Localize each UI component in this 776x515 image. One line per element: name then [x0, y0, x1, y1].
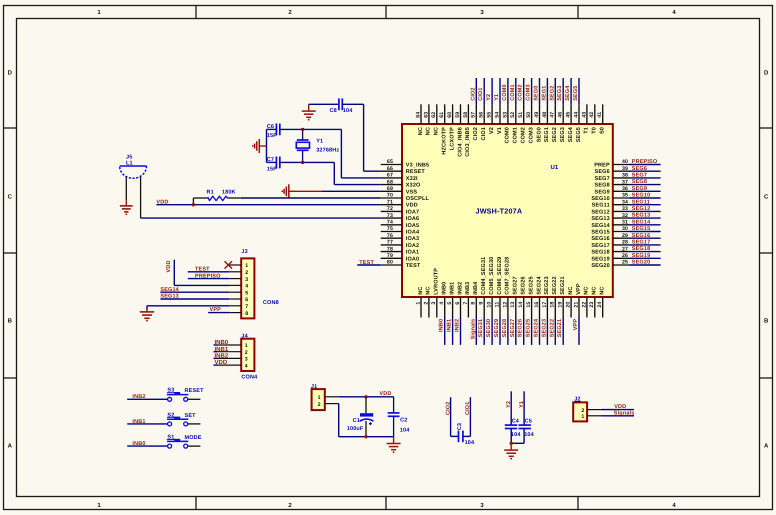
- U1 pin 38 SEG7: [613, 177, 630, 179]
- svg-text:12: 12: [502, 302, 508, 308]
- svg-text:104: 104: [511, 432, 521, 438]
- svg-text:SEG27: SEG27: [510, 319, 516, 337]
- svg-text:75: 75: [387, 226, 393, 232]
- svg-text:SEG6: SEG6: [632, 166, 647, 172]
- svg-text:SEG14: SEG14: [160, 287, 179, 293]
- svg-text:2: 2: [245, 350, 248, 356]
- svg-text:SEG23: SEG23: [541, 319, 547, 337]
- wire net SEG2: [554, 78, 556, 104]
- svg-text:SEG5: SEG5: [576, 127, 582, 142]
- svg-text:CIO4_INB6: CIO4_INB6: [457, 127, 463, 157]
- svg-text:JWSH-T207A: JWSH-T207A: [476, 206, 523, 215]
- wire TEST pin 80: [357, 264, 380, 266]
- svg-text:SEG22: SEG22: [549, 319, 555, 337]
- wire VSS to pin 69: [322, 190, 381, 192]
- J4 pin 3 net INB2: [218, 357, 242, 359]
- wire net SEG10: [630, 197, 661, 199]
- svg-text:28: 28: [622, 240, 628, 246]
- svg-text:C6: C6: [267, 124, 274, 130]
- svg-text:VPP: VPP: [210, 307, 222, 313]
- wire net TEST (J3 pin 2): [188, 271, 230, 273]
- svg-text:IOA4: IOA4: [406, 230, 420, 236]
- svg-text:19: 19: [558, 302, 564, 308]
- wire net SEG20: [630, 264, 661, 266]
- U1 pin 16 SEG24: [539, 297, 541, 318]
- junction VDD/R1: [192, 203, 195, 206]
- svg-text:73: 73: [387, 213, 393, 219]
- resistor R1 180K: [192, 198, 194, 205]
- svg-text:SEG1: SEG1: [544, 127, 550, 142]
- svg-text:CIO1: CIO1: [465, 402, 471, 415]
- wire bottom rail (J1): [339, 436, 394, 438]
- svg-text:SEG2: SEG2: [549, 86, 555, 101]
- svg-text:16: 16: [534, 302, 540, 308]
- svg-text:U1: U1: [551, 164, 559, 171]
- svg-text:6: 6: [245, 297, 248, 303]
- svg-text:SEG13: SEG13: [632, 213, 650, 219]
- U1 pin 3 LVROUTP: [436, 297, 438, 318]
- svg-text:RESET: RESET: [185, 388, 205, 394]
- wire net SEG31: [483, 318, 485, 345]
- svg-text:59: 59: [455, 112, 461, 118]
- wire net INB0 (S1): [127, 445, 167, 447]
- U1 pin 32 SEG13: [613, 217, 630, 219]
- svg-text:6: 6: [455, 302, 461, 305]
- U1 pin 76 IOA3: [381, 237, 402, 239]
- U1 pin 9 COM4_SEG31: [483, 297, 485, 318]
- U1 pin 53 COM0: [507, 104, 509, 124]
- svg-text:SEG9: SEG9: [595, 189, 610, 195]
- wire net INB2 (S3): [127, 398, 167, 400]
- U1 pin 35 SEG10: [613, 197, 630, 199]
- U1 pin 48 SEG1: [546, 104, 548, 124]
- svg-text:CON4: CON4: [241, 375, 258, 381]
- svg-text:B: B: [8, 318, 13, 325]
- svg-text:B: B: [764, 318, 769, 325]
- svg-text:SEG5: SEG5: [573, 86, 579, 101]
- svg-text:SEG25: SEG25: [528, 276, 534, 294]
- svg-text:68: 68: [387, 179, 393, 185]
- svg-text:4: 4: [439, 302, 445, 305]
- svg-text:65: 65: [387, 159, 393, 165]
- svg-text:7: 7: [463, 302, 469, 305]
- J2 pin 2 wire net VDD: [587, 409, 601, 411]
- svg-text:104: 104: [524, 432, 534, 438]
- U1 pin 46 SEG3: [562, 104, 564, 124]
- svg-text:44: 44: [573, 112, 579, 118]
- svg-text:SEG0: SEG0: [534, 86, 540, 101]
- svg-text:SEG3: SEG3: [557, 86, 563, 101]
- J1 pin 1 wire (VDD): [325, 396, 339, 398]
- wire net INB1: [452, 318, 454, 345]
- svg-text:INB1: INB1: [449, 282, 455, 295]
- svg-text:15P: 15P: [267, 133, 277, 139]
- svg-text:60: 60: [447, 112, 453, 118]
- svg-text:36: 36: [622, 186, 628, 192]
- svg-text:8: 8: [471, 302, 477, 305]
- wire C4/C5 to ground: [510, 429, 512, 444]
- connector J1 body: [312, 389, 325, 410]
- svg-text:PREP: PREP: [594, 163, 610, 169]
- U1 pin 5 INB1: [452, 297, 454, 318]
- svg-text:SEG16: SEG16: [632, 233, 650, 239]
- svg-text:SEG7: SEG7: [632, 173, 647, 179]
- wire net COM0: [507, 78, 509, 104]
- svg-text:46: 46: [558, 112, 564, 118]
- svg-text:C: C: [764, 194, 769, 201]
- svg-text:SEG12: SEG12: [591, 209, 609, 215]
- U1 pin 72 IOA7: [381, 210, 402, 212]
- wire net SEG14: [630, 224, 661, 226]
- svg-text:SEG19: SEG19: [591, 256, 609, 262]
- svg-text:SEG24: SEG24: [536, 276, 542, 295]
- svg-text:SEG20: SEG20: [632, 260, 650, 266]
- svg-text:63: 63: [423, 112, 429, 118]
- svg-text:SEG6: SEG6: [595, 169, 610, 175]
- J3 pin 5: [229, 291, 241, 293]
- svg-text:SEG16: SEG16: [591, 236, 609, 242]
- svg-text:Y2: Y2: [506, 401, 512, 408]
- U1 pin 33 SEG12: [613, 210, 630, 212]
- svg-text:INB1: INB1: [132, 419, 145, 425]
- svg-text:NC: NC: [426, 127, 432, 135]
- U1 pin 75 IOA4: [381, 231, 402, 233]
- U1 pin 70 OSCPLL: [381, 197, 402, 199]
- svg-text:IOA0: IOA0: [406, 256, 419, 262]
- svg-text:104: 104: [465, 440, 475, 446]
- svg-text:COM7_SEG28: COM7_SEG28: [505, 257, 511, 295]
- svg-text:X32I: X32I: [406, 176, 418, 182]
- capacitor C8: [338, 98, 340, 110]
- wire node B to X32O pin 68: [303, 161, 335, 163]
- U1 pin 23 NC: [594, 297, 596, 318]
- svg-text:22: 22: [581, 302, 587, 308]
- U1 pin 74 IOA5: [381, 224, 402, 226]
- svg-text:CIO2: CIO2: [470, 87, 476, 100]
- svg-text:29: 29: [622, 233, 628, 239]
- svg-text:69: 69: [387, 186, 393, 192]
- svg-text:COM1: COM1: [513, 127, 519, 144]
- svg-text:SEG1: SEG1: [541, 86, 547, 101]
- svg-text:IOA6: IOA6: [406, 216, 419, 222]
- svg-text:NC: NC: [592, 287, 598, 295]
- svg-text:VSS: VSS: [406, 189, 418, 195]
- capacitor C5 104: [519, 424, 531, 426]
- svg-text:38: 38: [622, 173, 628, 179]
- U1 pin 14 SEG26: [523, 297, 525, 318]
- U1 pin 39 SEG6: [613, 170, 630, 172]
- svg-text:72: 72: [387, 206, 393, 212]
- wire net COM1: [515, 78, 517, 104]
- svg-text:COM3: COM3: [526, 84, 532, 101]
- svg-text:3: 3: [245, 277, 248, 283]
- J3 pin 4: [229, 284, 241, 286]
- svg-text:47: 47: [550, 112, 556, 118]
- J5 left leg: [125, 177, 127, 201]
- svg-text:32: 32: [622, 213, 628, 219]
- svg-text:62: 62: [431, 112, 437, 118]
- svg-text:33: 33: [622, 206, 628, 212]
- svg-text:INB2: INB2: [132, 394, 145, 400]
- svg-text:30: 30: [622, 226, 628, 232]
- U1 pin 69 VSS: [381, 190, 402, 192]
- wire net PREPISO (J3 pin 3): [188, 278, 230, 280]
- svg-text:COM0: COM0: [502, 84, 508, 101]
- U1 pin 2 NC: [428, 297, 430, 318]
- svg-text:SEG0: SEG0: [536, 127, 542, 142]
- svg-text:SEG15: SEG15: [632, 226, 650, 232]
- svg-text:INB2: INB2: [457, 282, 463, 295]
- svg-text:SEG29: SEG29: [494, 319, 500, 337]
- svg-text:SEG23: SEG23: [544, 276, 550, 294]
- U1 pin 12 COM7_SEG28: [507, 297, 509, 318]
- wire net SEG18: [630, 251, 661, 253]
- svg-text:26: 26: [622, 253, 628, 259]
- svg-text:COM1: COM1: [510, 84, 516, 101]
- svg-text:CIO2: CIO2: [473, 127, 479, 140]
- U1 pin 63 NC: [428, 104, 430, 124]
- svg-text:C4: C4: [512, 418, 520, 424]
- U1 pin 57 CIO2: [475, 104, 477, 124]
- wire net SEG24: [539, 318, 541, 345]
- wire net PREPISO: [630, 164, 661, 166]
- svg-text:SEG30: SEG30: [486, 319, 492, 337]
- svg-text:SEG12: SEG12: [632, 206, 650, 212]
- J3 pin 6: [229, 298, 241, 300]
- svg-text:50: 50: [526, 112, 532, 118]
- svg-text:S0: S0: [600, 127, 606, 134]
- svg-text:VDD: VDD: [166, 260, 172, 272]
- wire net SEG1: [546, 78, 548, 104]
- svg-text:VDD: VDD: [614, 404, 626, 410]
- svg-text:40: 40: [622, 159, 628, 165]
- U1 pin 64 NC: [420, 104, 422, 124]
- svg-text:1: 1: [245, 343, 248, 349]
- svg-text:C7: C7: [267, 157, 274, 163]
- svg-text:CON8: CON8: [263, 300, 279, 306]
- svg-text:J4: J4: [241, 333, 248, 339]
- svg-text:74: 74: [387, 220, 393, 226]
- wire net Y1: [523, 391, 525, 425]
- U1 pin 66 RESET: [381, 170, 402, 172]
- wire net SEG9: [630, 190, 661, 192]
- svg-text:27: 27: [622, 246, 628, 252]
- wire net CIO1: [483, 78, 485, 104]
- wire net CIO2: [475, 78, 477, 104]
- U1 pin 65 V3_INB5: [381, 164, 402, 166]
- svg-text:INB1: INB1: [447, 319, 453, 332]
- svg-text:52: 52: [510, 112, 516, 118]
- svg-text:53: 53: [502, 112, 508, 118]
- svg-text:67: 67: [387, 173, 393, 179]
- svg-text:INB2: INB2: [215, 353, 229, 360]
- U1 pin 1 NC: [420, 297, 422, 318]
- svg-text:NC: NC: [568, 287, 574, 295]
- svg-text:4: 4: [245, 284, 248, 290]
- svg-text:64: 64: [415, 112, 421, 118]
- J3 pin 2: [229, 271, 241, 273]
- svg-text:2: 2: [581, 408, 584, 414]
- svg-text:SEG15: SEG15: [591, 230, 609, 236]
- capacitor C3 104: [451, 435, 459, 437]
- J3 pin 8: [229, 312, 241, 314]
- wire net SEG11: [630, 204, 661, 206]
- wire net SEG0: [539, 78, 541, 104]
- svg-text:43: 43: [581, 112, 587, 118]
- svg-text:RESET: RESET: [406, 169, 426, 175]
- svg-text:SEG26: SEG26: [521, 276, 527, 294]
- svg-text:COM3: COM3: [528, 127, 534, 144]
- wire net SEG26: [523, 318, 525, 345]
- svg-text:1: 1: [415, 302, 421, 305]
- U1 pin 25 SEG20: [613, 264, 630, 266]
- U1 pin 47 SEG2: [554, 104, 556, 124]
- svg-text:COM2: COM2: [521, 127, 527, 144]
- svg-text:SEG9: SEG9: [632, 186, 647, 192]
- svg-text:VDD: VDD: [406, 203, 418, 209]
- U1 pin 71 VDD: [381, 204, 402, 206]
- U1 pin 7 INB3: [467, 297, 469, 318]
- svg-text:5: 5: [447, 302, 453, 305]
- svg-text:COM2: COM2: [518, 84, 524, 101]
- svg-text:31: 31: [622, 220, 628, 226]
- svg-text:NC: NC: [418, 287, 424, 295]
- svg-text:SEG24: SEG24: [534, 318, 540, 337]
- svg-text:INB0: INB0: [439, 319, 445, 332]
- svg-text:Signals: Signals: [470, 319, 476, 340]
- svg-text:SEG8: SEG8: [632, 179, 647, 185]
- svg-text:J1: J1: [311, 384, 317, 390]
- wire net INB1 (S2): [127, 423, 167, 425]
- svg-text:C2: C2: [400, 418, 407, 424]
- svg-text:SEG10: SEG10: [591, 196, 609, 202]
- svg-text:INB3: INB3: [465, 282, 471, 295]
- svg-text:2: 2: [423, 302, 429, 305]
- U1 pin 45 SEG4: [570, 104, 572, 124]
- svg-text:INB1: INB1: [215, 346, 229, 353]
- capacitor C4 104: [505, 424, 517, 426]
- svg-text:V3_INB5: V3_INB5: [406, 163, 429, 169]
- svg-text:SEG21: SEG21: [560, 276, 566, 294]
- wire net CIO2: [450, 397, 452, 436]
- svg-text:TEST: TEST: [406, 263, 421, 269]
- svg-text:IOA7: IOA7: [406, 209, 419, 215]
- svg-text:NC: NC: [418, 127, 424, 135]
- svg-text:1: 1: [245, 263, 248, 269]
- svg-text:3: 3: [245, 357, 248, 363]
- svg-text:IOA1: IOA1: [406, 250, 419, 256]
- svg-text:180K: 180K: [222, 189, 236, 195]
- U1 pin 60 LCXOTP: [452, 104, 454, 124]
- svg-text:SEG20: SEG20: [591, 263, 609, 269]
- svg-text:78: 78: [387, 246, 393, 252]
- svg-text:15P: 15P: [267, 167, 277, 173]
- J1 pin 2 wire: [325, 403, 339, 405]
- svg-text:79: 79: [387, 253, 393, 259]
- wire C7 to node B: [280, 161, 303, 163]
- U1 pin 34 SEG11: [613, 204, 630, 206]
- U1 pin 62 NC: [436, 104, 438, 124]
- U1 pin 8 INB4: [475, 297, 477, 318]
- svg-text:COM4_SEG31: COM4_SEG31: [481, 257, 487, 295]
- U1 pin 44 SEG5: [578, 104, 580, 124]
- wire net SEG15: [630, 231, 661, 233]
- U1 pin 59 CIO4_INB6: [460, 104, 462, 124]
- svg-text:SET: SET: [185, 413, 197, 419]
- wire net SEG17: [630, 244, 661, 246]
- U1 pin 31 SEG14: [613, 224, 630, 226]
- J3 pin 1: [229, 264, 241, 266]
- J5 right leg / wire to IOA6 pin 73: [140, 177, 142, 218]
- svg-text:SEG11: SEG11: [592, 203, 610, 209]
- wire net SEG21: [562, 318, 564, 345]
- switch S1 MODE: [168, 444, 172, 448]
- svg-text:R1: R1: [207, 189, 214, 195]
- svg-text:T1: T1: [584, 127, 590, 134]
- ground (VSS, sideways): [289, 190, 296, 192]
- U1 pin 73 IOA6: [381, 217, 402, 219]
- svg-text:COM6_SEG29: COM6_SEG29: [497, 257, 503, 295]
- svg-text:SEG11: SEG11: [632, 199, 650, 205]
- capacitor C6 15P: [267, 128, 277, 130]
- svg-text:J3: J3: [241, 249, 247, 255]
- wire net Y2: [510, 391, 512, 425]
- svg-text:SEG2: SEG2: [552, 127, 558, 142]
- J4 pin 1 net INB0: [218, 344, 242, 346]
- junction C1 bottom: [364, 435, 367, 438]
- svg-text:SEG19: SEG19: [632, 253, 650, 259]
- svg-text:SEG27: SEG27: [513, 276, 519, 294]
- svg-text:INB0: INB0: [215, 339, 229, 346]
- svg-text:C1: C1: [353, 418, 360, 424]
- svg-text:SEG14: SEG14: [591, 223, 610, 229]
- wire net VDD (J3 pin 4): [174, 284, 229, 286]
- U1 pin 67 X32I: [381, 177, 402, 179]
- J4 pin 4 net VDD: [218, 364, 242, 366]
- svg-text:SEG25: SEG25: [526, 319, 532, 337]
- wire net SEG29: [499, 318, 501, 345]
- svg-text:4: 4: [245, 363, 248, 369]
- svg-text:8: 8: [245, 311, 248, 317]
- U1 pin 56 CIO1: [483, 104, 485, 124]
- svg-text:COM5_SEG30: COM5_SEG30: [489, 257, 495, 295]
- svg-text:1: 1: [318, 395, 321, 401]
- svg-text:100uF: 100uF: [347, 426, 364, 432]
- svg-text:SEG14: SEG14: [632, 219, 651, 225]
- svg-text:18: 18: [550, 302, 556, 308]
- junction C4/C5 ground: [510, 442, 513, 445]
- svg-text:CIO2: CIO2: [445, 402, 451, 415]
- U1 pin 42 T0: [594, 104, 596, 124]
- wire C8 left: [309, 103, 339, 105]
- svg-text:SEG10: SEG10: [632, 193, 650, 199]
- svg-text:Signals: Signals: [614, 410, 635, 416]
- wire net SEG6: [630, 170, 661, 172]
- svg-text:MODE: MODE: [185, 435, 202, 441]
- svg-text:SEG4: SEG4: [568, 126, 574, 142]
- svg-text:41: 41: [597, 112, 603, 118]
- svg-text:25: 25: [622, 260, 628, 266]
- node A junction: [301, 128, 304, 131]
- svg-text:TEST: TEST: [195, 267, 210, 273]
- svg-text:2: 2: [245, 270, 248, 276]
- J4 pin 2 net INB1: [218, 351, 242, 353]
- wire VDD rail to pin 71: [156, 204, 380, 206]
- U1 pin 13 SEG27: [515, 297, 517, 318]
- U1 pin 52 COM1: [515, 104, 517, 124]
- ground (crystal, sideways): [260, 145, 267, 147]
- wire C6 to node A: [280, 128, 303, 130]
